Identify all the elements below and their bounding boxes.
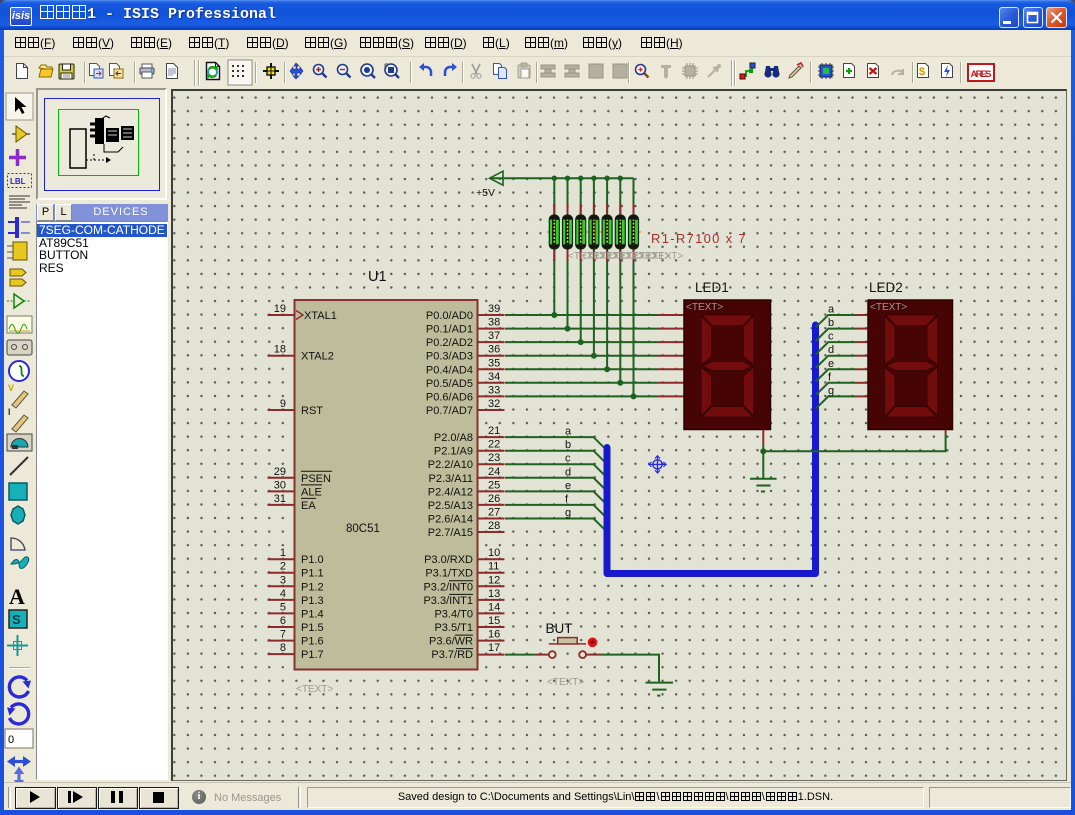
wire P2.6 to bus — [505, 519, 607, 532]
U1 left pin names — [301, 310, 337, 661]
power terminal +5V arrow — [490, 171, 503, 185]
wire pin17 to button — [505, 654, 535, 656]
ground symbol at button — [646, 683, 674, 696]
svg-text:LBL: LBL — [10, 177, 26, 186]
junction dots resistor columns on P0 rows — [551, 312, 636, 399]
wire P2.5 to bus — [505, 505, 607, 518]
svg-text:$: $ — [919, 66, 925, 78]
junction dots on +5V rail — [552, 176, 623, 181]
wire P2.0 to bus — [505, 437, 607, 450]
wire bus to LED2 pin g — [816, 396, 855, 408]
junction common cathode node — [760, 448, 766, 454]
resistor R2 — [562, 203, 572, 261]
wire resistor column R5 to pin35 — [606, 178, 608, 369]
wire P2.1 to bus — [505, 451, 607, 464]
resistor R5 — [602, 203, 612, 261]
wire bus to LED2 pin a — [816, 315, 855, 327]
wire P0.0 row to LED1 pin a — [505, 314, 658, 316]
LED2 pin stubs a-g — [855, 315, 868, 396]
annotation origin dashes — [547, 231, 641, 233]
wire bus to LED2 pin c — [816, 342, 855, 354]
bus segment — [607, 325, 816, 574]
push button cap — [549, 638, 586, 644]
pin XTAL1 clock chevron — [296, 311, 303, 320]
wire resistor column R6 to pin34 — [619, 178, 621, 383]
net labels a-g left — [565, 426, 572, 519]
wire P2.3 to bus — [505, 478, 607, 491]
U1 overlines PSEN ALE EA — [301, 471, 332, 498]
wire P0.3 row to LED1 pin d — [505, 355, 658, 357]
wire resistor column R3 to pin37 — [580, 178, 582, 342]
wire resistor column R7 to pin33 — [633, 178, 635, 396]
push button actuator red dot — [588, 638, 598, 648]
wire to ground under LED1 — [762, 451, 764, 478]
op-amp U1 body 80C51 — [295, 269, 478, 695]
wire resistor column R2 to pin38 — [567, 178, 569, 328]
wire P0.6 row to LED1 pin g — [505, 395, 658, 397]
resistor TEXT placeholders — [568, 251, 683, 262]
wire P2.4 to bus — [505, 491, 607, 504]
wire bus to LED2 pin f — [816, 383, 855, 395]
U1 overlines INT0 INT1 WR RD — [449, 581, 473, 649]
button right pin stub — [586, 654, 601, 656]
7-segment display LED2 — [868, 280, 953, 430]
wire LED1 common to ground and LED2 — [763, 434, 945, 451]
svg-text:S: S — [12, 612, 21, 627]
wire P2.2 to bus — [505, 464, 607, 477]
U1 left pin stubs — [268, 315, 295, 654]
LED1 common pin stub — [762, 430, 764, 446]
button left pin stub — [535, 654, 549, 656]
resistor R3 — [576, 203, 586, 261]
wire P0.2 row to LED1 pin c — [505, 341, 658, 343]
origin marker crosshair — [649, 456, 666, 473]
wire bus to LED2 pin d — [816, 356, 855, 368]
resistor R6 — [615, 203, 625, 261]
wire +5V rail — [490, 177, 634, 179]
resistor R4 — [589, 203, 599, 261]
U1 right pin stubs — [478, 315, 505, 655]
wire P0.5 row to LED1 pin f — [505, 382, 658, 384]
svg-text:I: I — [8, 407, 11, 417]
svg-text:0: 0 — [8, 734, 14, 746]
resistor R7 — [628, 203, 638, 261]
U1 right pin numbers — [488, 303, 500, 654]
ground symbol under LED1 — [750, 479, 777, 492]
svg-text:ARES: ARES — [971, 69, 992, 80]
U1 left pin numbers — [274, 303, 286, 654]
svg-text:A: A — [9, 584, 25, 609]
wire P0.4 row to LED1 pin e — [505, 368, 658, 370]
wire bus to LED2 pin b — [816, 329, 855, 341]
LED1 pin stubs a-g — [658, 315, 685, 396]
wire resistor column R4 to pin36 — [593, 178, 595, 356]
wire bus to LED2 pin e — [816, 369, 855, 381]
wire resistor column R1 to pin39 — [553, 178, 555, 315]
svg-text:V: V — [8, 383, 14, 393]
net labels a-g right — [828, 304, 835, 397]
LED2 common pin stub — [945, 430, 947, 435]
button contact left — [549, 651, 556, 658]
button contact right — [579, 651, 586, 658]
wire button to ground — [601, 655, 660, 682]
wire P0.1 row to LED1 pin b — [505, 328, 658, 330]
7-segment display LED1 — [684, 280, 771, 430]
resistor R1 — [549, 203, 559, 261]
U1 right pin names — [423, 310, 473, 661]
